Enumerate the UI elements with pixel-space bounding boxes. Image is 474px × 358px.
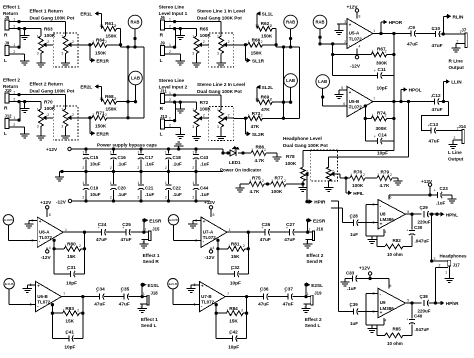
svg-text:R77: R77 [275,175,284,180]
svg-text:Dual Gang 100K Pot: Dual Gang 100K Pot [283,143,328,148]
svg-text:1: 1 [255,98,257,102]
svg-text:C15: C15 [90,155,99,160]
svg-text:C33: C33 [346,270,355,275]
svg-text:R62: R62 [261,21,270,26]
svg-text:R76: R76 [354,169,363,174]
svg-text:R61: R61 [105,21,114,26]
svg-text:100K: 100K [44,106,56,111]
svg-text:.1uF: .1uF [173,162,183,167]
svg-text:1: 1 [217,35,219,39]
svg-text:2: 2 [79,244,81,248]
svg-text:3: 3 [192,52,194,56]
svg-text:.1uF: .1uF [200,192,210,197]
svg-text:C16: C16 [118,155,127,160]
svg-text:1: 1 [13,91,15,95]
svg-text:R84: R84 [229,306,238,311]
svg-text:1: 1 [192,108,194,112]
svg-text:C26: C26 [262,222,271,227]
svg-text:1: 1 [192,181,194,185]
svg-text:R66: R66 [252,38,261,43]
svg-text:2: 2 [457,40,459,44]
svg-text:C24: C24 [98,222,107,227]
svg-text:1: 1 [37,108,39,112]
svg-text:2: 2 [72,113,74,117]
svg-text:10uF: 10uF [90,192,101,197]
svg-text:U6-B: U6-B [37,294,48,299]
svg-text:Power On Indicator: Power On Indicator [220,167,262,172]
svg-text:RLIN: RLIN [453,14,465,19]
svg-text:7: 7 [373,97,375,101]
svg-text:2: 2 [82,166,84,170]
svg-text:100K: 100K [200,107,212,112]
svg-text:R: R [160,106,164,112]
svg-text:47uF: 47uF [407,41,418,46]
svg-text:2: 2 [228,114,230,118]
svg-text:Send L: Send L [141,323,157,328]
svg-text:1: 1 [249,179,251,183]
svg-text:J11: J11 [160,88,167,93]
svg-text:LAB: LAB [286,78,295,83]
svg-text:+: + [37,284,40,289]
svg-text:C18: C18 [173,155,182,160]
svg-text:E2SR: E2SR [313,218,326,223]
svg-text:8: 8 [49,213,51,217]
svg-text:1: 1 [307,292,309,296]
svg-text:C21: C21 [145,185,154,190]
svg-text:1: 1 [100,97,102,101]
svg-text:3: 3 [434,257,436,261]
svg-text:R67: R67 [377,47,386,52]
svg-text:-12V: -12V [205,255,216,260]
svg-text:R68: R68 [105,94,114,99]
svg-text:R: R [160,33,164,39]
svg-text:1: 1 [229,228,231,232]
svg-text:2: 2 [169,124,171,128]
svg-text:220uF: 220uF [418,308,431,313]
svg-text:8: 8 [359,15,361,19]
svg-text:1: 1 [13,43,15,47]
svg-text:10 ohm: 10 ohm [387,341,403,346]
svg-text:R75: R75 [252,175,261,180]
svg-text:R86: R86 [256,144,265,149]
svg-text:1: 1 [100,24,102,28]
svg-text:7: 7 [63,292,65,296]
svg-text:150K: 150K [251,51,263,56]
svg-text:J19: J19 [314,291,322,296]
svg-text:10uF: 10uF [90,162,101,167]
svg-text:Stereo Line 2 In Level: Stereo Line 2 In Level [197,82,245,87]
svg-text:Effect 2 Return: Effect 2 Return [30,82,63,87]
svg-text:E1LB: E1LB [5,282,14,286]
svg-text:4: 4 [385,319,387,323]
svg-text:6: 6 [390,284,392,288]
svg-text:Dual Gang 100K Pot: Dual Gang 100K Pot [30,88,75,93]
svg-text:J9: J9 [5,40,10,45]
svg-text:R80: R80 [67,241,76,246]
svg-text:2: 2 [192,166,194,170]
svg-text:+: + [406,229,408,233]
svg-text:4.7K: 4.7K [380,183,391,188]
svg-text:10pF: 10pF [64,345,75,350]
svg-text:10pF: 10pF [377,85,388,90]
svg-text:3: 3 [61,52,63,56]
svg-text:L: L [4,58,7,64]
svg-text:2: 2 [390,173,392,177]
svg-text:1: 1 [13,116,15,120]
svg-text:R63: R63 [44,27,53,32]
svg-text:47uF: 47uF [94,301,105,306]
svg-text:RAB: RAB [131,20,140,25]
svg-text:.047uF: .047uF [415,327,430,332]
svg-text:15K: 15K [231,254,240,259]
svg-text:.1uF: .1uF [118,162,128,167]
svg-text:Send L: Send L [305,323,321,328]
svg-text:Stereo Line: Stereo Line [159,78,185,83]
svg-text:HPIL: HPIL [353,191,364,196]
svg-text:.1uF: .1uF [145,162,155,167]
svg-text:2: 2 [13,123,15,127]
svg-text:Send R: Send R [143,259,160,264]
svg-text:1: 1 [217,108,219,112]
svg-text:2: 2 [169,50,171,54]
svg-text:2: 2 [77,308,79,312]
svg-text:150K: 150K [95,124,107,129]
svg-text:220uF: 220uF [418,220,431,225]
svg-text:J12: J12 [5,113,13,118]
svg-text:J9: J9 [160,40,165,45]
svg-text:+12V: +12V [40,200,52,205]
svg-text:C41: C41 [65,329,74,334]
svg-text:2: 2 [137,195,139,199]
svg-text:.1uF: .1uF [173,192,183,197]
svg-text:C38: C38 [420,294,429,299]
svg-text:2: 2 [439,264,441,268]
svg-text:HPOR: HPOR [389,20,403,25]
svg-text:R70: R70 [44,100,53,105]
svg-text:2: 2 [115,97,117,101]
svg-text:-12V: -12V [41,255,52,260]
svg-text:L: L [160,132,163,138]
svg-text:U7-A: U7-A [203,229,214,234]
svg-text:E2SL: E2SL [311,283,323,288]
svg-text:2: 2 [47,40,49,44]
svg-text:4: 4 [49,246,51,250]
svg-text:C10: C10 [432,26,441,31]
svg-text:C25: C25 [122,222,131,227]
svg-text:R81: R81 [231,241,240,246]
svg-text:2: 2 [241,308,243,312]
svg-text:R: R [4,33,8,39]
svg-text:2: 2 [72,40,74,44]
svg-text:E1SL: E1SL [148,283,160,288]
svg-text:R Line: R Line [449,58,464,63]
svg-text:Dual Gang 100K Pot: Dual Gang 100K Pot [30,15,75,20]
svg-text:-12V: -12V [56,199,67,204]
svg-text:R85: R85 [393,327,402,332]
svg-text:C40: C40 [414,314,423,319]
svg-text:U5-A: U5-A [349,31,360,36]
svg-text:3: 3 [192,125,194,129]
svg-text:Effect 2: Effect 2 [3,77,20,82]
svg-text:E1RB: E1RB [4,218,13,222]
svg-text:+12V: +12V [359,266,371,271]
svg-text:2: 2 [332,169,334,173]
svg-text:47K: 47K [261,107,270,112]
svg-text:C43: C43 [200,155,209,160]
svg-text:C44: C44 [200,185,209,190]
svg-text:LED1: LED1 [229,160,241,165]
svg-text:2: 2 [110,195,112,199]
svg-text:1: 1 [257,97,259,101]
svg-text:+: + [434,189,436,193]
svg-text:R: R [4,106,8,112]
svg-text:C36: C36 [260,287,269,292]
svg-text:C22: C22 [173,185,182,190]
svg-text:HPhL: HPhL [446,212,458,217]
svg-text:+12V: +12V [346,4,358,9]
svg-text:C31: C31 [67,265,76,270]
svg-text:2: 2 [243,244,245,248]
svg-text:1: 1 [248,40,250,44]
svg-text:R82: R82 [393,238,402,243]
svg-text:2: 2 [454,136,456,140]
svg-text:ER1R: ER1R [96,58,109,63]
svg-text:TL072: TL072 [39,235,53,240]
svg-text:2: 2 [47,113,49,117]
svg-text:Power supply bypass caps: Power supply bypass caps [97,143,157,148]
svg-text:100K: 100K [285,161,297,166]
svg-text:6: 6 [343,102,345,106]
svg-text:C20: C20 [118,185,127,190]
svg-text:RAB: RAB [286,20,295,25]
svg-text:Output: Output [449,65,465,70]
svg-text:C13: C13 [430,122,439,127]
svg-text:47K: 47K [251,124,260,129]
svg-text:2: 2 [270,24,272,28]
svg-text:E1SR: E1SR [149,218,162,223]
svg-text:SL2R: SL2R [252,132,265,137]
svg-text:7: 7 [227,292,229,296]
svg-text:1: 1 [137,150,139,154]
svg-text:L: L [160,58,163,64]
svg-text:Output: Output [448,156,464,161]
svg-text:150K: 150K [95,51,107,56]
svg-text:1: 1 [373,29,375,33]
svg-text:10pF: 10pF [66,280,77,285]
svg-text:15K: 15K [229,319,238,324]
svg-text:C9: C9 [409,25,415,30]
svg-text:C29: C29 [420,205,429,210]
svg-text:R79: R79 [381,169,390,174]
svg-text:TL072: TL072 [201,299,215,304]
svg-text:47uF: 47uF [258,301,269,306]
svg-text:C27: C27 [286,222,295,227]
svg-text:1: 1 [192,150,194,154]
svg-text:.1uF: .1uF [200,162,210,167]
svg-text:RAB: RAB [316,20,325,25]
svg-text:1: 1 [110,150,112,154]
svg-text:100K: 100K [352,183,364,188]
svg-text:C37: C37 [284,287,293,292]
svg-text:+: + [349,23,352,28]
svg-text:C28: C28 [350,213,359,218]
svg-text:2: 2 [262,179,264,183]
svg-text:1: 1 [372,50,374,54]
svg-text:J5: J5 [5,15,10,20]
svg-text:2: 2 [344,40,346,44]
svg-text:L: L [4,131,7,137]
svg-text:Dual Gang 100K Pot: Dual Gang 100K Pot [197,89,242,94]
svg-text:2: 2 [228,40,230,44]
svg-text:1: 1 [61,35,63,39]
svg-text:+: + [39,219,42,224]
svg-text:TL072: TL072 [37,299,51,304]
svg-text:R83: R83 [65,306,74,311]
svg-text:2: 2 [169,98,171,102]
svg-text:5: 5 [341,86,343,90]
svg-text:1: 1 [61,108,63,112]
svg-text:150K: 150K [261,34,273,39]
svg-text:U8: U8 [380,211,386,216]
svg-text:3: 3 [37,52,39,56]
svg-text:R73: R73 [252,111,261,116]
svg-text:HPhR: HPhR [446,301,459,306]
svg-text:+: + [201,284,204,289]
svg-text:LLIN: LLIN [451,80,462,85]
svg-text:.1uF: .1uF [118,192,128,197]
svg-text:1: 1 [169,43,171,47]
svg-text:1: 1 [102,24,104,28]
svg-text:Effect 1 Return: Effect 1 Return [30,9,63,14]
svg-text:1: 1 [13,18,15,22]
svg-text:1: 1 [102,97,104,101]
svg-text:1: 1 [65,228,67,232]
svg-text:150K: 150K [106,34,118,39]
svg-text:1: 1 [251,148,253,152]
svg-text:J18: J18 [151,291,159,296]
svg-text:1: 1 [37,35,39,39]
svg-text:+12V: +12V [204,200,216,205]
svg-text:2: 2 [115,24,117,28]
svg-text:1: 1 [350,173,352,177]
svg-text:1: 1 [248,114,250,118]
svg-text:Headphones: Headphones [440,254,468,259]
svg-text:3: 3 [61,125,63,129]
svg-text:2: 2 [13,98,15,102]
svg-text:2: 2 [82,195,84,199]
svg-text:2: 2 [137,166,139,170]
svg-text:1: 1 [169,91,171,95]
svg-text:R74: R74 [377,111,386,116]
svg-text:2: 2 [169,25,171,29]
svg-text:1uF: 1uF [350,321,358,326]
svg-text:5: 5 [407,210,409,214]
svg-text:100K: 100K [200,33,212,38]
svg-text:1: 1 [271,179,273,183]
svg-text:+: + [380,221,383,226]
svg-text:SL2L: SL2L [262,85,274,90]
svg-text:E2RB: E2RB [169,218,178,222]
svg-text:1: 1 [165,150,167,154]
svg-text:J16: J16 [316,226,324,231]
svg-text:TL072: TL072 [203,235,217,240]
svg-text:J15: J15 [152,226,160,231]
svg-text:C23: C23 [440,186,449,191]
svg-text:3: 3 [37,125,39,129]
svg-text:U6-A: U6-A [39,229,50,234]
svg-text:-12V: -12V [350,63,361,68]
svg-text:Stereo Line 1 In Level: Stereo Line 1 In Level [197,9,245,14]
svg-text:2: 2 [13,25,15,29]
svg-text:2: 2 [264,148,266,152]
svg-text:300K: 300K [376,126,388,131]
svg-text:1: 1 [82,181,84,185]
svg-text:ER1L: ER1L [80,12,92,17]
svg-text:2: 2 [261,114,263,118]
svg-text:8: 8 [213,213,215,217]
svg-text:47uF: 47uF [96,237,107,242]
svg-text:+: + [406,318,408,322]
svg-text:150K: 150K [106,107,118,112]
svg-text:47uF: 47uF [283,301,294,306]
svg-text:1: 1 [255,24,257,28]
svg-text:R69: R69 [261,94,270,99]
svg-text:47uF: 47uF [260,237,271,242]
svg-text:R72: R72 [200,100,209,105]
svg-text:R64: R64 [96,38,105,43]
svg-text:47uF: 47uF [432,107,443,112]
svg-text:+: + [374,135,376,139]
svg-text:+12V: +12V [46,147,58,152]
svg-text:J7: J7 [461,28,467,33]
svg-text:HPIR: HPIR [314,200,326,205]
svg-text:U5-B: U5-B [349,99,360,104]
svg-text:Effect 2: Effect 2 [305,317,322,322]
svg-text:2: 2 [203,40,205,44]
svg-text:2: 2 [203,114,205,118]
svg-text:1: 1 [145,228,147,232]
svg-text:.1uF: .1uF [145,192,155,197]
svg-text:Stereo Line: Stereo Line [159,4,185,9]
svg-text:+: + [380,310,383,315]
svg-text:Send R: Send R [306,259,323,264]
svg-text:1: 1 [372,114,374,118]
svg-text:1uF: 1uF [350,232,358,237]
svg-text:Effect 1: Effect 1 [143,253,160,258]
svg-text:2: 2 [192,195,194,199]
svg-text:47uF: 47uF [429,139,440,144]
svg-text:J6: J6 [160,15,165,20]
svg-text:47uF: 47uF [121,237,132,242]
svg-text:+: + [349,90,352,95]
svg-text:HPOL: HPOL [409,88,422,93]
svg-text:4: 4 [385,230,387,234]
svg-text:1: 1 [169,18,171,22]
svg-text:Effect 1: Effect 1 [141,317,158,322]
svg-text:1: 1 [169,117,171,121]
svg-text:+: + [203,219,206,224]
svg-text:15K: 15K [65,319,74,324]
svg-text:TL072: TL072 [349,104,363,109]
svg-text:3: 3 [217,52,219,56]
svg-text:2: 2 [105,40,107,44]
svg-text:C42: C42 [229,329,238,334]
svg-text:47uF: 47uF [432,43,443,48]
svg-text:C17: C17 [145,155,154,160]
svg-text:2: 2 [261,40,263,44]
svg-text:1: 1 [257,24,259,28]
svg-text:100K: 100K [44,33,56,38]
